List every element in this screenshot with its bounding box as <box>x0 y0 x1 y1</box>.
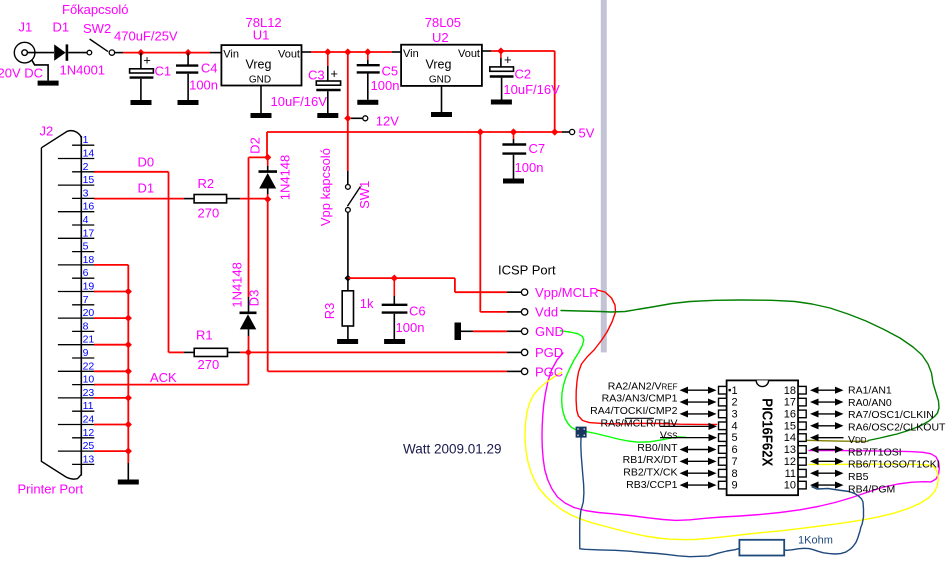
svg-text:21: 21 <box>83 334 95 346</box>
capacitor C3 10uF/16V (electrolytic) <box>327 52 329 66</box>
svg-text:20: 20 <box>83 307 95 319</box>
wire Vpp/MCLR to PIC pin 4 (red freehand) <box>576 290 716 424</box>
svg-text:Vin: Vin <box>223 49 239 61</box>
svg-text:VSS: VSS <box>660 430 678 442</box>
svg-text:D1: D1 <box>53 20 70 35</box>
pin 3 box (PIC left) <box>719 410 727 418</box>
svg-text:10: 10 <box>83 374 95 386</box>
pin 5 stub (J2) <box>72 251 94 253</box>
svg-text:U2: U2 <box>432 30 449 45</box>
svg-text:Watt 2009.01.29: Watt 2009.01.29 <box>403 442 502 457</box>
ground (C3) <box>317 113 338 118</box>
wire U1 GND pin to ground <box>260 86 262 114</box>
wire J2 ground bus vertical <box>127 265 129 451</box>
svg-text:10uF/16V: 10uF/16V <box>271 94 328 109</box>
svg-text:C6: C6 <box>409 304 426 319</box>
svg-text:4: 4 <box>732 420 738 432</box>
wire 5V rail corner down to D2 <box>266 132 268 157</box>
ground (J2) <box>118 480 139 485</box>
wire 5V to Vdd <box>479 132 481 312</box>
svg-text:+: + <box>330 66 338 81</box>
svg-text:15: 15 <box>83 174 95 186</box>
pin 23 stub (J2) <box>58 397 94 399</box>
svg-text:13: 13 <box>784 444 796 456</box>
svg-text:GND: GND <box>429 74 451 85</box>
pin 25 stub (J2) <box>58 450 94 452</box>
node junction ground bus pin 23 <box>125 394 132 401</box>
connector J1 (DC jack) <box>14 42 35 63</box>
svg-text:RB5: RB5 <box>848 471 869 483</box>
wire J1 to D1 <box>28 52 55 54</box>
svg-text:18: 18 <box>784 385 796 397</box>
svg-text:RB4/PGM: RB4/PGM <box>848 483 895 495</box>
wire D0 pin2 right and down <box>94 171 169 173</box>
svg-text:270: 270 <box>198 206 220 221</box>
pin 11 box (PIC right) <box>798 469 806 477</box>
arrow pin 15 <box>818 425 837 427</box>
svg-text:C3: C3 <box>308 68 325 83</box>
wire J1 to ground <box>32 60 48 81</box>
svg-text:U1: U1 <box>253 28 270 43</box>
svg-text:13: 13 <box>83 453 95 465</box>
svg-text:RA3/AN3/CMP1: RA3/AN3/CMP1 <box>602 393 678 405</box>
svg-text:ICSP Port: ICSP Port <box>498 263 556 278</box>
capacitor C2 10uF/16V (electrolytic) <box>500 51 502 58</box>
node junction ground bus pin 24 <box>125 421 132 428</box>
wire pin 18 to ground bus <box>94 264 128 266</box>
pin 5 box (PIC left) <box>719 434 727 442</box>
svg-text:5V: 5V <box>579 126 595 141</box>
capacitor C4 100n <box>187 53 189 65</box>
svg-text:1N4148: 1N4148 <box>278 155 293 201</box>
wire 12V to SW1 top <box>347 118 349 171</box>
svg-text:RA2/AN2/VREF: RA2/AN2/VREF <box>608 380 678 392</box>
svg-text:3: 3 <box>732 409 738 421</box>
node junction C1 top <box>137 49 144 56</box>
svg-text:11: 11 <box>83 400 94 412</box>
svg-text:SW2: SW2 <box>83 21 111 36</box>
svg-text:14: 14 <box>83 148 95 160</box>
pin 3 stub (J2) <box>72 197 94 199</box>
pin 1 box (PIC left) <box>719 386 727 394</box>
wire ground bus to ground <box>127 451 129 463</box>
svg-text:RB2/TX/CK: RB2/TX/CK <box>623 467 677 479</box>
svg-text:C7: C7 <box>529 141 546 156</box>
pin 16 stub (J2) <box>58 211 94 213</box>
ground (C7) <box>503 179 524 184</box>
ground (C1) <box>131 100 152 105</box>
pin 7 box (PIC left) <box>719 458 727 466</box>
node junction D2 cathode <box>264 154 271 161</box>
wire pin 25 to ground bus <box>94 450 128 452</box>
ground (C5) <box>357 100 378 105</box>
svg-text:2: 2 <box>732 397 738 409</box>
resistor R1 270 <box>194 348 227 356</box>
node junction ground bus pin 22 <box>125 368 132 375</box>
svg-text:Vout: Vout <box>458 48 480 60</box>
svg-text:PIC16F62X: PIC16F62X <box>758 398 775 466</box>
wire 12V tap to terminal <box>351 117 363 119</box>
capacitor C6 100n <box>393 278 395 296</box>
arrow pin 7 <box>687 460 709 462</box>
svg-text:Printer Port: Printer Port <box>18 482 84 497</box>
svg-text:Vreg: Vreg <box>426 57 452 71</box>
wire node to Vpp corner <box>348 277 455 279</box>
wire GND to PIC pin 5 (light green freehand) <box>561 331 687 442</box>
svg-text:R3: R3 <box>322 303 337 320</box>
ground (C6) <box>384 339 405 344</box>
wire D1-line pin3 to R2 <box>94 198 184 200</box>
pin 2 stub (J2) <box>72 171 94 173</box>
node GND terminal <box>507 330 521 332</box>
svg-text:8: 8 <box>83 320 89 332</box>
svg-text:GND: GND <box>249 75 271 86</box>
svg-text:PGD: PGD <box>535 345 563 360</box>
wire 5V rail <box>267 131 562 133</box>
svg-text:D0: D0 <box>138 155 155 170</box>
pin 4 stub (J2) <box>72 224 94 226</box>
node junction C6 top <box>391 275 398 282</box>
arrow pin 3 <box>687 413 709 415</box>
svg-text:C5: C5 <box>382 64 399 79</box>
svg-text:+: + <box>143 53 151 68</box>
arrow pin 1 <box>687 389 709 391</box>
svg-text:18: 18 <box>83 254 95 266</box>
svg-text:23: 23 <box>83 387 95 399</box>
svg-text:1k: 1k <box>360 296 374 311</box>
node Vdd terminal <box>507 311 521 313</box>
svg-text:D3: D3 <box>247 290 262 307</box>
svg-text:7: 7 <box>83 294 89 306</box>
pin 16 box (PIC right) <box>798 410 806 418</box>
svg-text:GND: GND <box>535 324 564 339</box>
capacitor C5 100n <box>367 52 369 60</box>
chip notch <box>756 380 768 386</box>
svg-text:14: 14 <box>784 432 796 444</box>
arrow pin 12 <box>818 460 837 462</box>
node junction C2 top <box>497 47 504 54</box>
pin 9 stub (J2) <box>72 357 94 359</box>
pin 15 box (PIC right) <box>798 422 806 430</box>
resistor R3 1k <box>347 278 349 291</box>
pin 17 stub (J2) <box>58 237 94 239</box>
svg-text:19: 19 <box>83 281 95 293</box>
svg-text:RA6/OSC2/CLKOUT: RA6/OSC2/CLKOUT <box>848 422 946 434</box>
ground (C4) <box>178 100 199 105</box>
svg-text:17: 17 <box>83 227 95 239</box>
svg-text:15: 15 <box>784 420 796 432</box>
wire segment into PIC pin 14 (olive) <box>807 440 869 441</box>
pin 8 box (PIC left) <box>719 469 727 477</box>
svg-text:Vout: Vout <box>278 49 300 61</box>
wire 12V branch down to SW1 <box>347 52 349 118</box>
svg-text:R2: R2 <box>198 176 215 191</box>
node junction C3 top <box>324 48 331 55</box>
pin 14 box (PIC right) <box>798 434 806 442</box>
wire PGD to PIC pin 13 (magenta freehand loop) <box>542 353 939 520</box>
wire pin 20 to ground bus <box>94 317 128 319</box>
svg-text:RB6/T1OSO/T1CKI: RB6/T1OSO/T1CKI <box>848 459 940 471</box>
pin 15 stub (J2) <box>58 184 94 186</box>
wire down to ACK line <box>247 352 249 384</box>
arrow pin 14 <box>818 437 844 439</box>
node junction ground bus pin 20 <box>125 315 132 322</box>
svg-text:1Kohm: 1Kohm <box>798 535 833 547</box>
wire SW2 to U1 Vin (top rail) <box>115 52 123 54</box>
wire ACK to connector pin10 <box>94 384 248 386</box>
svg-text:9: 9 <box>83 347 89 359</box>
svg-text:PGC: PGC <box>535 365 563 380</box>
svg-text:20V DC: 20V DC <box>0 66 43 81</box>
node 12V terminal <box>363 116 368 121</box>
svg-text:Vin: Vin <box>403 48 419 60</box>
svg-text:25: 25 <box>83 440 95 452</box>
svg-text:D2: D2 <box>248 137 263 154</box>
svg-text:100n: 100n <box>396 320 425 335</box>
pin 24 stub (J2) <box>58 424 94 426</box>
capacitor C7 100n <box>513 132 515 139</box>
svg-text:100n: 100n <box>515 160 544 175</box>
op-amp U2 78L05 voltage regulator box <box>401 45 482 86</box>
ground (U2) <box>431 112 452 117</box>
ground (J1) <box>38 81 59 86</box>
node junction ground bus pin 19 <box>125 288 132 295</box>
svg-text:Vdd: Vdd <box>535 305 558 320</box>
svg-text:1: 1 <box>732 385 738 397</box>
wire pin 21 to ground bus <box>94 344 128 346</box>
svg-text:470uF/25V: 470uF/25V <box>114 29 178 44</box>
pin 2 box (PIC left) <box>719 398 727 406</box>
pin 6 stub (J2) <box>72 277 94 279</box>
connector J2 (DB25 printer port) outline <box>41 131 81 480</box>
arrow pin 9 <box>687 484 709 486</box>
pin 8 stub (J2) <box>72 330 94 332</box>
svg-text:D1: D1 <box>138 181 155 196</box>
svg-text:C1: C1 <box>155 64 172 79</box>
svg-text:22: 22 <box>83 360 95 372</box>
pin 14 stub (J2) <box>58 158 94 160</box>
svg-text:1: 1 <box>83 134 89 146</box>
pin 22 stub (J2) <box>58 370 94 372</box>
svg-text:6: 6 <box>732 444 738 456</box>
svg-text:RA5/MCLR/THV: RA5/MCLR/THV <box>600 417 677 429</box>
wire pin 23 to ground bus <box>94 397 128 399</box>
svg-text:12V: 12V <box>376 114 399 129</box>
svg-text:ACK: ACK <box>150 370 177 385</box>
svg-text:4: 4 <box>83 214 89 226</box>
wire GND node to 1Kohm to PIC pin 10 (dark blue freehand) <box>580 438 740 557</box>
svg-text:R1: R1 <box>196 328 213 343</box>
wire PGC line <box>268 370 507 372</box>
svg-text:RB0/INT: RB0/INT <box>637 442 678 454</box>
wire Vdd to PIC pin 14 (dark green freehand loop) <box>561 300 939 441</box>
pin 19 stub (J2) <box>58 291 94 293</box>
wire U2 GND pin to ground <box>441 86 443 112</box>
ground (C2) <box>491 100 512 105</box>
svg-text:Főkapcsoló: Főkapcsoló <box>62 2 128 17</box>
ground (ICSP GND stub) <box>455 323 462 341</box>
svg-text:12: 12 <box>784 456 796 468</box>
svg-text:8: 8 <box>732 468 738 480</box>
arrow pin 16 <box>818 413 837 415</box>
wire into R1 <box>169 351 185 353</box>
pin 13 stub (J2) <box>72 463 94 465</box>
svg-text:VDD: VDD <box>848 434 867 446</box>
pin 13 box (PIC right) <box>798 446 806 454</box>
svg-text:12: 12 <box>83 427 95 439</box>
wire PGC to PIC pin 12 (yellow freehand loop) <box>525 373 938 540</box>
svg-text:9: 9 <box>732 480 738 492</box>
svg-text:24: 24 <box>83 414 95 426</box>
svg-text:RB1/RX/DT: RB1/RX/DT <box>623 454 678 466</box>
svg-text:100n: 100n <box>371 78 400 93</box>
svg-text:RA7/OSC1/CLKIN: RA7/OSC1/CLKIN <box>848 409 934 421</box>
svg-text:3: 3 <box>83 187 89 199</box>
arrow pin 6 <box>687 449 709 451</box>
svg-text:2: 2 <box>83 161 89 173</box>
capacitor C1 470uF/25V (electrolytic) <box>140 53 142 69</box>
arrow pin 18 <box>818 389 837 391</box>
svg-text:+: + <box>504 52 512 67</box>
node junction C7 top <box>510 128 517 135</box>
pin 21 stub (J2) <box>58 344 94 346</box>
wire pin 24 to ground bus <box>94 424 128 426</box>
node junction C5 top <box>364 48 371 55</box>
op-amp U1 78L12 voltage regulator box <box>221 45 301 85</box>
node PGD terminal <box>507 351 521 353</box>
node junction R1/D3/PGD/ACK <box>245 349 252 356</box>
node junction SW1/R3/C6 (black) <box>345 275 352 282</box>
connector J2 spine <box>80 136 82 476</box>
node junction 12V tap <box>344 115 351 122</box>
svg-text:17: 17 <box>784 397 796 409</box>
arrow pin 11 <box>818 472 837 474</box>
pin 18 stub (J2) <box>58 264 94 266</box>
svg-text:SW1: SW1 <box>357 181 372 209</box>
svg-text:J2: J2 <box>40 124 54 139</box>
pin 20 stub (J2) <box>58 317 94 319</box>
wire pin 22 to ground bus <box>94 370 128 372</box>
svg-text:16: 16 <box>83 201 95 213</box>
pin 12 stub (J2) <box>72 437 94 439</box>
wire 1Kohm to PIC pin 10 (dark blue freehand) <box>784 487 863 554</box>
svg-text:RA4/TOCKI/CMP2: RA4/TOCKI/CMP2 <box>590 405 677 417</box>
wire D1 to SW2 <box>68 52 87 54</box>
switch SW1 (Vpp kapcsolo) <box>346 185 351 190</box>
arrow pin 8 <box>687 472 709 474</box>
node junction ground bus pin 25 <box>125 448 132 455</box>
svg-text:Vpp kapcsoló: Vpp kapcsoló <box>318 148 333 226</box>
node junction D2 anode / R2 / PGC <box>264 196 271 203</box>
pin 10 stub (J2) <box>72 384 94 386</box>
svg-text:RB7/T1OSI: RB7/T1OSI <box>848 446 902 458</box>
arrow pin 4 <box>660 425 710 427</box>
gray page divider line <box>601 0 607 352</box>
pin 17 box (PIC right) <box>798 398 806 406</box>
arrow pin 2 <box>687 401 709 403</box>
wire PGD line <box>248 351 507 353</box>
node junction 5V rail corner <box>551 128 558 135</box>
arrow pin 5 <box>660 437 710 439</box>
svg-text:Vpp/MCLR: Vpp/MCLR <box>535 285 599 300</box>
svg-text:10: 10 <box>784 480 796 492</box>
diode D1 1N4001 <box>54 44 65 60</box>
node Vpp/MCLR terminal <box>507 291 521 293</box>
svg-text:270: 270 <box>198 357 220 372</box>
arrow pin 13 <box>818 449 837 451</box>
pin 1 stub (J2) <box>72 144 94 146</box>
svg-text:RB3/CCP1: RB3/CCP1 <box>626 479 678 491</box>
svg-text:RA0/AN0: RA0/AN0 <box>848 397 892 409</box>
wire Vpp-clamp branch down through D3 <box>248 157 250 297</box>
pin 12 box (PIC right) <box>798 458 806 466</box>
ground (R3) <box>337 339 358 344</box>
svg-text:1N4001: 1N4001 <box>60 63 106 78</box>
pin 10 box (PIC right) <box>798 481 806 489</box>
wire pin 19 to ground bus <box>94 291 128 293</box>
pin 4 box (PIC left) <box>719 422 727 430</box>
wire U2 Vout to 5V corner <box>482 50 491 52</box>
switch SW2 <box>87 50 92 55</box>
node 5V terminal <box>570 129 575 134</box>
resistor 1Kohm (blue outline) <box>739 540 784 556</box>
svg-text:16: 16 <box>784 409 796 421</box>
svg-text:10uF/16V: 10uF/16V <box>503 82 560 97</box>
wire D2 anode down to PGC line <box>267 199 269 371</box>
svg-text:5: 5 <box>83 241 89 253</box>
pin 9 box (PIC left) <box>719 481 727 489</box>
svg-text:RA1/AN1: RA1/AN1 <box>848 384 892 396</box>
pin 11 stub (J2) <box>72 410 94 412</box>
node junction Vdd branch <box>477 128 484 135</box>
svg-text:C4: C4 <box>201 60 218 75</box>
svg-text:Vreg: Vreg <box>246 58 272 72</box>
op-amp U3 PIC16F62X body <box>727 380 799 495</box>
svg-text:5: 5 <box>732 432 738 444</box>
arrow pin 10 <box>818 484 837 486</box>
wire D2 node to left branch <box>249 156 268 158</box>
svg-text:J1: J1 <box>19 20 33 35</box>
svg-text:C2: C2 <box>515 67 532 82</box>
wire SW1 bottom to R3/C6 node <box>347 212 349 278</box>
diode D2 1N4148 <box>267 157 269 166</box>
wire U1 Vout rail to U2 Vin <box>302 51 312 53</box>
resistor R2 270 <box>194 195 227 203</box>
pin 7 stub (J2) <box>72 304 94 306</box>
svg-text:78L05: 78L05 <box>425 15 461 30</box>
svg-text:7: 7 <box>732 456 738 468</box>
node junction ground bus pin 21 <box>125 341 132 348</box>
ground (U1) <box>251 113 272 118</box>
svg-text:11: 11 <box>785 468 796 480</box>
diode D3 1N4148 <box>240 311 257 314</box>
node junction 12V branch <box>344 48 351 55</box>
pin 18 box (PIC right) <box>798 386 806 394</box>
svg-text:6: 6 <box>83 267 89 279</box>
svg-text:100n: 100n <box>189 78 218 93</box>
pin 1 bullet mark <box>729 389 731 391</box>
overline on MCLR (pin 4 label) <box>625 417 654 419</box>
node PGC terminal <box>507 370 521 372</box>
svg-text:1N4148: 1N4148 <box>230 262 245 308</box>
pin 6 box (PIC left) <box>719 446 727 454</box>
arrow pin 17 <box>818 401 837 403</box>
node marker (blue square) on Vss wire <box>576 427 587 438</box>
node junction C4 top <box>185 49 192 56</box>
